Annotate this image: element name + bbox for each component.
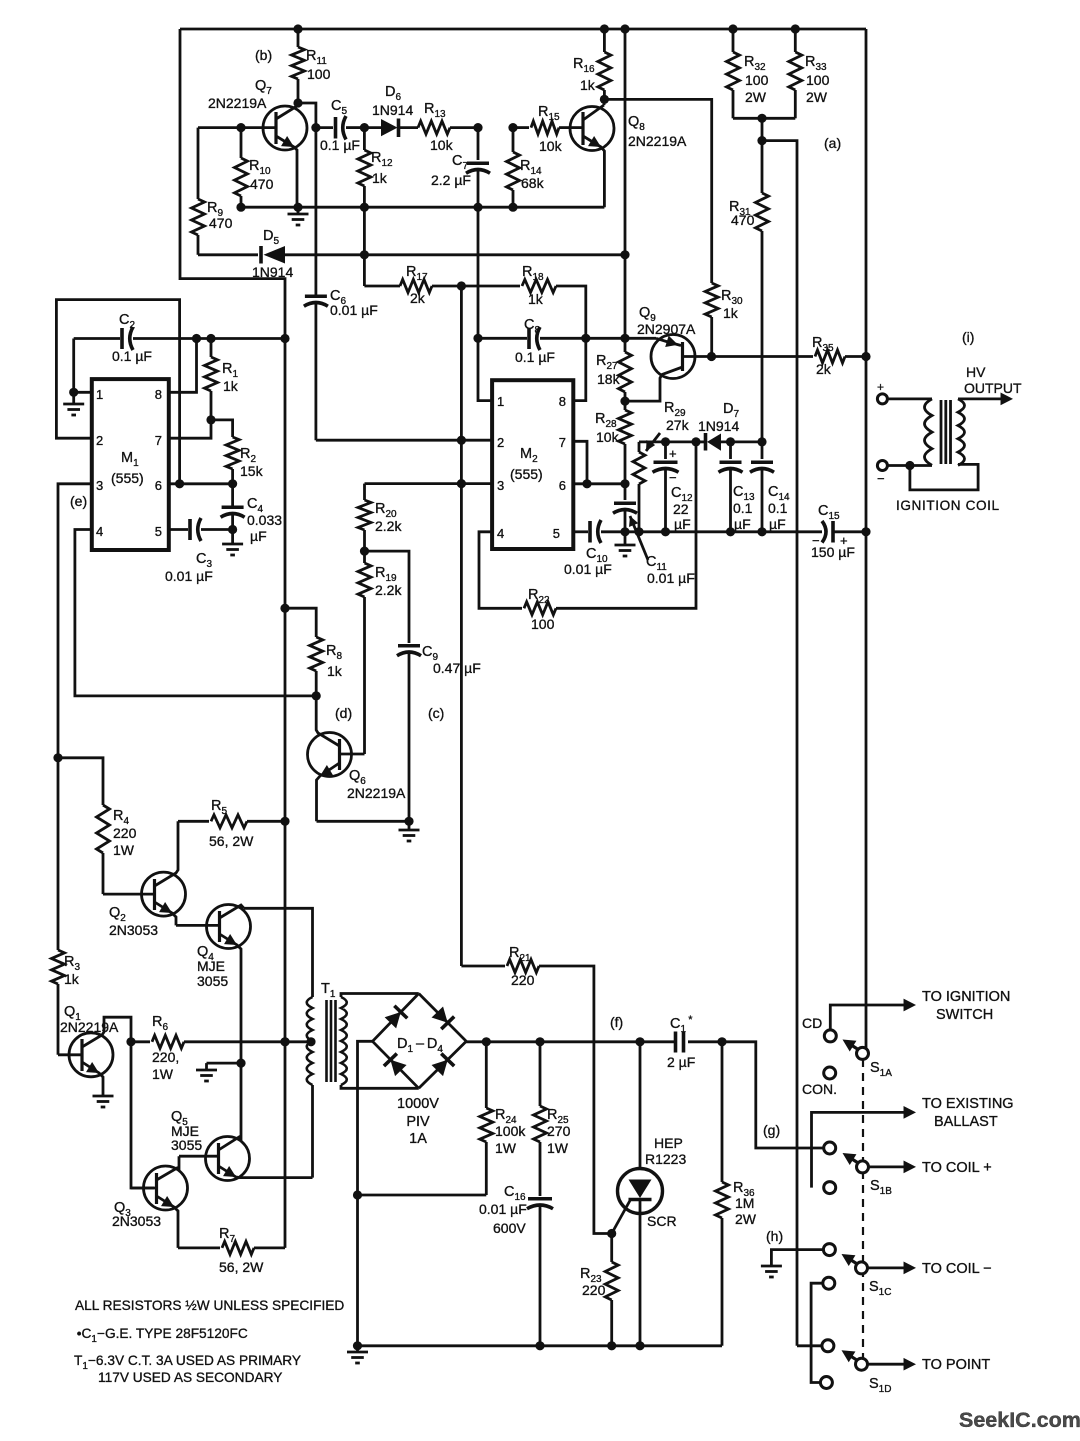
- svg-text:117V USED AS SECONDARY: 117V USED AS SECONDARY: [98, 1370, 282, 1385]
- svg-text:4: 4: [497, 526, 504, 541]
- svg-text:−: −: [812, 533, 820, 548]
- svg-text:2W: 2W: [745, 89, 767, 105]
- ground under Q1: [93, 1095, 114, 1098]
- svg-text:0.1: 0.1: [768, 500, 788, 516]
- transistor Q8 2N2219A: [570, 107, 614, 151]
- svg-text:100: 100: [531, 616, 555, 632]
- capacitor C15 150uF: [822, 521, 826, 543]
- svg-text:1N914: 1N914: [252, 264, 293, 280]
- svg-text:HEP: HEP: [654, 1135, 683, 1151]
- svg-text:−: −: [877, 471, 885, 486]
- svg-text:5: 5: [155, 524, 162, 539]
- wire bridge left vertex down: [358, 1041, 373, 1346]
- svg-text:0.1 µF: 0.1 µF: [515, 349, 555, 365]
- svg-text:4: 4: [96, 524, 103, 539]
- svg-text:TO EXISTING: TO EXISTING: [922, 1096, 1014, 1112]
- capacitor C11 0.01uF: [620, 527, 629, 536]
- svg-text:(c): (c): [428, 705, 444, 721]
- svg-text:1k: 1k: [723, 305, 739, 321]
- svg-text:6: 6: [559, 478, 566, 493]
- svg-text:0.01 µF: 0.01 µF: [647, 570, 695, 586]
- svg-text:1k: 1k: [223, 378, 239, 394]
- svg-text:−: −: [669, 470, 677, 485]
- capacitor C13 0.1uF: [726, 437, 735, 446]
- pointer arrow for R29: [646, 433, 660, 451]
- svg-text:1: 1: [96, 387, 103, 402]
- transistor Q9 2N2907A: [651, 335, 695, 379]
- wire Q7 base to R9: [198, 126, 242, 129]
- ignition coil core: [940, 400, 943, 464]
- SCR HEP R1223: [639, 1042, 642, 1169]
- svg-text:TO COIL +: TO COIL +: [922, 1160, 992, 1176]
- contact S1B lower: [824, 1182, 836, 1194]
- wire (g) from C1 to S1B: [722, 1042, 824, 1148]
- node dots on left vertical: [280, 334, 289, 343]
- svg-text:2k: 2k: [410, 290, 426, 306]
- svg-text:100k: 100k: [495, 1123, 526, 1139]
- resistor R7 56 2W: [178, 1247, 220, 1250]
- wire M2 pin 1 up to C8 net: [478, 338, 492, 400]
- wire R16/Q8 collector to R30: [604, 99, 711, 283]
- svg-text:2N3053: 2N3053: [109, 922, 158, 938]
- svg-text:0.1: 0.1: [733, 500, 753, 516]
- wire Q6 emitter to ground node: [317, 820, 410, 823]
- resistor R3 1k: [57, 758, 60, 950]
- diode D1 (bridge top-left): [385, 1012, 401, 1028]
- svg-text:2: 2: [497, 435, 504, 450]
- svg-text:+: +: [669, 446, 677, 461]
- transistor Q1 2N2219A: [69, 1033, 113, 1077]
- svg-text:2N2219A: 2N2219A: [628, 133, 687, 149]
- svg-text:TO COIL −: TO COIL −: [922, 1261, 992, 1277]
- svg-text:(a): (a): [824, 135, 841, 151]
- svg-text:8: 8: [155, 387, 162, 402]
- svg-text:CON.: CON.: [802, 1081, 837, 1097]
- wire supply branch x=625 down to timing net: [624, 29, 627, 255]
- T1 core: [325, 1000, 328, 1082]
- resistor R5 56 2W: [178, 820, 209, 823]
- resistor R21 220: [461, 965, 505, 968]
- svg-text:SWITCH: SWITCH: [936, 1007, 993, 1023]
- wire ballast-resistor net to S1D upper: [797, 1344, 822, 1347]
- wire C7 net down to C8 row: [477, 207, 480, 338]
- svg-text:1A: 1A: [409, 1131, 427, 1147]
- svg-text:2.2k: 2.2k: [375, 518, 402, 534]
- svg-text:2N2219A: 2N2219A: [347, 785, 406, 801]
- svg-text:1W: 1W: [495, 1140, 517, 1156]
- svg-text:2N3053: 2N3053: [112, 1213, 161, 1229]
- svg-text:1M: 1M: [735, 1195, 754, 1211]
- ignition coil secondary winding: [958, 399, 965, 466]
- svg-text:15k: 15k: [240, 463, 264, 479]
- svg-text:(h): (h): [766, 1228, 783, 1244]
- resistor R30 1k: [705, 283, 718, 317]
- wire M2 pin5/C15 rail: [573, 530, 588, 533]
- diode D7 1N914: [696, 440, 704, 443]
- resistor R23 220: [610, 1234, 613, 1263]
- wire bottom ground rail: [358, 1344, 723, 1347]
- wire M2 pin 6 row: [573, 482, 625, 485]
- svg-text:0.01 µF: 0.01 µF: [330, 302, 378, 318]
- resistor R29 27k: [638, 442, 641, 452]
- diode D5 1N914: [198, 253, 258, 256]
- svg-text:56, 2W: 56, 2W: [209, 833, 254, 849]
- diode D3 (bridge bottom-left): [390, 1060, 406, 1076]
- svg-text:68k: 68k: [521, 175, 545, 191]
- svg-text:0.033: 0.033: [247, 512, 282, 528]
- wire rail from C11 to C15: [625, 530, 822, 533]
- ground under C9/Q6: [408, 821, 411, 830]
- wire Q7 collector node to C5/C6: [298, 103, 316, 128]
- svg-text:22: 22: [673, 501, 689, 517]
- switch S1B wiper: [857, 1161, 869, 1173]
- resistor R28 10k: [624, 401, 627, 410]
- capacitor C3 0.01uF: [169, 528, 188, 531]
- wire C5 node down to C6: [314, 128, 317, 295]
- ignition coil primary winding: [925, 399, 933, 465]
- ground at bottom rail: [353, 1341, 362, 1350]
- wire T1 secondary top to bridge: [341, 994, 419, 998]
- svg-text:5: 5: [553, 526, 560, 541]
- node Q9 base / R30: [707, 352, 716, 361]
- switch S1D wiper: [856, 1358, 868, 1370]
- diode D4 (bridge bottom-right): [432, 1060, 448, 1076]
- svg-text:2k: 2k: [816, 361, 832, 377]
- svg-text:2N2219A: 2N2219A: [208, 95, 267, 111]
- resistor R11: [297, 29, 300, 47]
- to coil + arrow: [868, 1166, 908, 1169]
- svg-text:2N2219A: 2N2219A: [60, 1019, 119, 1035]
- contact S1B upper: [824, 1142, 836, 1154]
- resistor R22 100: [524, 602, 556, 615]
- wire to existing ballast arrow: [812, 1112, 909, 1187]
- capacitor C7 2.2uF: [473, 123, 482, 132]
- svg-text:220: 220: [113, 825, 137, 841]
- svg-text:3: 3: [96, 478, 103, 493]
- resistor R16 1k: [603, 29, 606, 52]
- svg-text:2N2907A: 2N2907A: [637, 321, 696, 337]
- capacitor C16 0.01uF 600V: [528, 1197, 552, 1201]
- to coil - arrow: [867, 1267, 908, 1270]
- wire top supply rail: [180, 28, 866, 31]
- wire T1 secondary bottom to bridge: [341, 1085, 419, 1088]
- svg-text:220,: 220,: [152, 1049, 179, 1065]
- contact CD: [824, 1030, 836, 1042]
- wire CD contact to ignition switch arrow: [830, 1005, 908, 1031]
- transistor Q4 MJE3055: [207, 905, 251, 949]
- diode D2 (bridge top-right): [432, 1006, 448, 1022]
- svg-text:µF: µF: [674, 516, 691, 532]
- resistor R14 68k: [508, 123, 517, 132]
- svg-text:7: 7: [559, 435, 566, 450]
- svg-text:µF: µF: [734, 516, 751, 532]
- contact S1D lower: [820, 1377, 832, 1389]
- svg-text:8: 8: [559, 394, 566, 409]
- resistor R35 2k: [712, 355, 814, 358]
- svg-text:µF: µF: [250, 528, 267, 544]
- svg-text:1k: 1k: [64, 971, 80, 987]
- wire C8 right node to pin 8 / pin 7 / pin 6: [581, 334, 590, 343]
- svg-text:1k: 1k: [580, 77, 596, 93]
- capacitor C14 0.1uF: [757, 437, 766, 446]
- svg-text:10k: 10k: [596, 429, 620, 445]
- wire section (b) emitter rail: [241, 206, 604, 209]
- svg-text:0.01 µF: 0.01 µF: [564, 561, 612, 577]
- to point arrow: [867, 1363, 908, 1366]
- transistor Q5 MJE3055: [206, 1137, 250, 1181]
- resistor R10: [240, 128, 243, 158]
- svg-text:3: 3: [497, 478, 504, 493]
- svg-text:(i): (i): [962, 329, 974, 345]
- wire M2 pin 4 to R22: [479, 532, 522, 609]
- svg-text:1W: 1W: [152, 1066, 174, 1082]
- pointer arrow for C11: [630, 516, 648, 560]
- svg-text:SeekIC.com: SeekIC.com: [959, 1408, 1080, 1432]
- svg-text:2W: 2W: [806, 89, 828, 105]
- svg-text:2.2 µF: 2.2 µF: [431, 172, 471, 188]
- wire R1 bottom to M1 pin 7: [169, 420, 211, 438]
- ground of section (b): [297, 207, 300, 214]
- resistor R32 100 2W: [728, 24, 737, 33]
- resistor R33 100 2W: [791, 24, 800, 33]
- resistor R25 270 1W: [539, 1042, 542, 1106]
- ground under C4: [231, 530, 234, 545]
- svg-text:220: 220: [582, 1282, 606, 1298]
- IC M1 (555): [92, 379, 169, 550]
- resistor R15 10k: [513, 126, 529, 129]
- transistor Q6 2N2219A: [308, 733, 352, 777]
- svg-text:(555): (555): [510, 466, 543, 482]
- capacitor C5 0.1uF: [316, 126, 333, 129]
- node R32/R33 junction: [757, 114, 766, 123]
- svg-text:R1223: R1223: [645, 1151, 686, 1167]
- resistor R9: [197, 128, 200, 199]
- wire R20/R19 junction to C9: [365, 551, 410, 643]
- svg-text:CD: CD: [802, 1015, 822, 1031]
- svg-text:+: +: [877, 380, 884, 394]
- wire ballast net down right side: [762, 141, 797, 1346]
- svg-text:0.01 µF: 0.01 µF: [479, 1201, 527, 1217]
- wire M2 pin 2 row from C6: [316, 439, 492, 442]
- wire Q1 collector node down to Q3 base: [131, 1042, 154, 1188]
- wire M2 pin 3 row to R20: [365, 482, 493, 485]
- wire D7 row: [639, 440, 697, 443]
- node R22 riser on D7 row: [691, 437, 700, 446]
- switch S1C wiper: [856, 1262, 868, 1274]
- node C2 right / pin8: [192, 334, 201, 343]
- svg-text:(d): (d): [335, 705, 352, 721]
- svg-text:100: 100: [806, 72, 830, 88]
- resistor R31 470: [761, 141, 764, 193]
- capacitor C10 0.01uF: [588, 521, 592, 543]
- dashed gang line: [862, 1059, 864, 1358]
- svg-text:470: 470: [731, 212, 755, 228]
- svg-text:SCR: SCR: [647, 1213, 677, 1229]
- svg-text:0.1 µF: 0.1 µF: [112, 348, 152, 364]
- svg-text:(e): (e): [70, 493, 87, 509]
- svg-text:10k: 10k: [539, 138, 563, 154]
- T1 secondary winding: [341, 997, 347, 1085]
- IC M2 (555): [492, 380, 573, 549]
- wire right edge vertical (supply to S1A): [865, 29, 868, 1048]
- resistor R13 10k: [418, 121, 450, 134]
- svg-text:100: 100: [745, 72, 769, 88]
- wire negative row to R24: [358, 1194, 487, 1197]
- resistor R20 2.2k: [363, 484, 366, 500]
- ground stub near Q4 emitter: [207, 1062, 242, 1065]
- resistor R36 1M 2W: [721, 1042, 724, 1182]
- svg-text:TO IGNITION: TO IGNITION: [922, 989, 1010, 1005]
- svg-text:1N914: 1N914: [698, 418, 739, 434]
- capacitor C4 0.033uF: [231, 484, 234, 506]
- svg-text:1N914: 1N914: [372, 102, 413, 118]
- switch S1A wiper: [857, 1047, 869, 1059]
- resistor R6 220 1W: [126, 1037, 135, 1046]
- wire rectified + row (f): [466, 1040, 674, 1043]
- terminal - of ignition coil: [877, 461, 887, 471]
- wire C2 left to M1 pin 1 and ground: [72, 339, 75, 393]
- capacitor C1 2uF (GE 28F5120FC): [674, 1032, 678, 1053]
- diode bridge D1-D4: [373, 994, 419, 1042]
- svg-text:470: 470: [209, 215, 233, 231]
- wire output net vertical x=461: [460, 286, 463, 440]
- wire D5/R12 net down to R17: [363, 207, 366, 286]
- svg-text:18k: 18k: [597, 371, 621, 387]
- svg-text:2: 2: [96, 433, 103, 448]
- svg-text:1000V: 1000V: [397, 1096, 439, 1112]
- svg-text:TO POINT: TO POINT: [922, 1357, 990, 1373]
- transistor Q3 2N3053: [144, 1166, 188, 1210]
- svg-text:3055: 3055: [197, 973, 228, 989]
- svg-text:470: 470: [250, 176, 274, 192]
- resistor R17 2k: [364, 285, 400, 288]
- wire S1C lower to S1D lower: [811, 1283, 823, 1382]
- capacitor C12 22uF: [661, 437, 670, 446]
- svg-text:ALL RESISTORS ½W UNLESS SPECIF: ALL RESISTORS ½W UNLESS SPECIFIED: [75, 1298, 344, 1313]
- resistor R18 1k: [461, 285, 520, 288]
- contact CON: [824, 1067, 836, 1079]
- terminal + of ignition coil: [877, 394, 887, 404]
- svg-text:2W: 2W: [735, 1211, 757, 1227]
- svg-text:1k: 1k: [528, 291, 544, 307]
- svg-text:OUTPUT: OUTPUT: [964, 380, 1022, 396]
- svg-text:600V: 600V: [493, 1220, 526, 1236]
- svg-text:1W: 1W: [113, 842, 135, 858]
- svg-text:27k: 27k: [666, 417, 690, 433]
- svg-text:270: 270: [547, 1123, 571, 1139]
- resistor R8 1k: [285, 608, 316, 637]
- capacitor C2 0.1uF: [74, 337, 120, 340]
- resistor R24 100k 1W: [485, 1042, 488, 1108]
- resistor R27 18k: [624, 338, 627, 352]
- svg-text:0.01 µF: 0.01 µF: [165, 568, 213, 584]
- wire C8 row to Q9/R27: [586, 337, 656, 340]
- svg-text:10k: 10k: [430, 137, 454, 153]
- resistor R2 15k: [211, 420, 233, 437]
- wire M1 pin 3 to R3 and Q1 base: [58, 484, 92, 758]
- svg-text:1k: 1k: [372, 170, 388, 186]
- wire left edge vertical of section (b) box: [180, 29, 285, 1248]
- wire M1 pin 6 row: [169, 482, 233, 485]
- capacitor C8 0.1uF: [478, 337, 527, 340]
- contact S1C lower: [823, 1277, 835, 1289]
- capacitor C9 0.47uF: [398, 644, 420, 648]
- svg-text:IGNITION COIL: IGNITION COIL: [896, 498, 1000, 513]
- svg-text:100: 100: [307, 66, 331, 82]
- svg-text:BALLAST: BALLAST: [934, 1114, 998, 1130]
- svg-text:1W: 1W: [547, 1140, 569, 1156]
- svg-text:0.47 µF: 0.47 µF: [433, 660, 481, 676]
- svg-text:MJE: MJE: [197, 958, 225, 974]
- resistor R12 1k: [363, 128, 366, 150]
- capacitor C6 0.01uF: [305, 294, 327, 298]
- svg-text:(555): (555): [111, 470, 144, 486]
- resistor R1 1k: [206, 334, 215, 343]
- transistor Q7 2N2219A: [263, 106, 307, 150]
- resistor R4 220 1W: [53, 753, 62, 762]
- svg-text:6: 6: [155, 478, 162, 493]
- resistor R19 2.2k: [363, 551, 366, 563]
- transistor Q2 2N3053: [142, 872, 186, 916]
- diode D6 1N914: [360, 123, 369, 132]
- wire T1 primary bottom to Q5 emitter: [311, 1085, 314, 1178]
- wire M1 pin2-pin6 tie rectangle: [56, 300, 179, 484]
- svg-text:2.2k: 2.2k: [375, 582, 402, 598]
- svg-text:7: 7: [155, 433, 162, 448]
- svg-text:(b): (b): [255, 47, 272, 63]
- svg-text:56, 2W: 56, 2W: [219, 1259, 264, 1275]
- svg-text:(g): (g): [763, 1122, 780, 1138]
- svg-text:(f): (f): [610, 1014, 623, 1030]
- HV output arrow: [958, 397, 1006, 400]
- svg-text:0.1 µF: 0.1 µF: [320, 137, 360, 153]
- svg-text:1k: 1k: [327, 663, 343, 679]
- svg-text:220: 220: [511, 972, 535, 988]
- svg-text:PIV: PIV: [406, 1114, 430, 1130]
- contact S1C upper: [823, 1244, 835, 1256]
- svg-text:1: 1: [497, 394, 504, 409]
- wire M1 pin 4 to trigger row (d): [75, 530, 316, 696]
- svg-text:µF: µF: [769, 516, 786, 532]
- svg-text:3055: 3055: [171, 1137, 202, 1153]
- svg-text:+: +: [840, 533, 848, 548]
- contact S1D upper: [822, 1340, 834, 1352]
- ignition coil secondary return loop: [910, 464, 978, 490]
- svg-text:HV: HV: [966, 364, 986, 380]
- svg-text:2 µF: 2 µF: [667, 1054, 695, 1070]
